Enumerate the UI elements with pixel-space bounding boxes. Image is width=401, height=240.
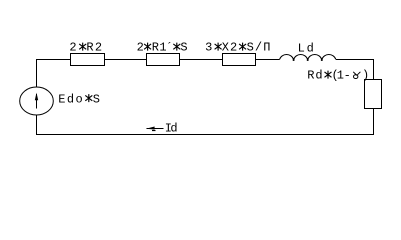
svg-text:2 R2: 2 R2 bbox=[69, 41, 103, 55]
svg-text:Id: Id bbox=[165, 122, 178, 136]
svg-text:Ld: Ld bbox=[298, 42, 316, 56]
svg-text:2 R1: 2 R1 bbox=[137, 41, 167, 55]
svg-text:3 X2 S/П: 3 X2 S/П bbox=[205, 41, 271, 55]
svg-text:Edo S: Edo S bbox=[58, 93, 101, 107]
svg-text:Rd: Rd bbox=[307, 69, 323, 83]
svg-text:): ) bbox=[362, 69, 369, 83]
svg-text:-: - bbox=[344, 69, 351, 83]
svg-text:S: S bbox=[180, 41, 187, 55]
svg-text:´: ´ bbox=[166, 41, 173, 55]
